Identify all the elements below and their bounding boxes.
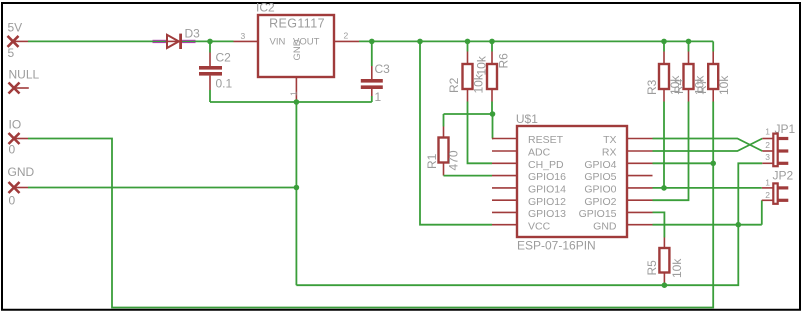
- pin 2 of JP1: [762, 140, 773, 151]
- svg-text:1: 1: [289, 91, 299, 96]
- svg-text:1: 1: [765, 178, 770, 188]
- svg-text:GND: GND: [292, 39, 303, 60]
- svg-text:CH_PD: CH_PD: [528, 159, 564, 171]
- wire IO net: [28, 102, 713, 308]
- pin GPIO0: [584, 184, 652, 196]
- junction R6 rail node: [489, 39, 495, 45]
- op-amp U$1 ESP-07-16PIN box: [516, 112, 627, 253]
- svg-text:10k: 10k: [670, 258, 684, 278]
- wire GND bus under regulator: [210, 101, 372, 103]
- wire 5V rail left: [28, 40, 234, 42]
- svg-text:RESET: RESET: [528, 134, 564, 146]
- junction C3 node: [369, 39, 375, 45]
- capacitor C2: [199, 41, 233, 102]
- svg-text:3: 3: [765, 152, 770, 162]
- resistor R3: [645, 41, 682, 101]
- svg-text:R6: R6: [497, 53, 511, 69]
- svg-text:GPIO12: GPIO12: [528, 196, 566, 208]
- svg-text:5: 5: [8, 46, 15, 60]
- svg-text:5V: 5V: [8, 21, 23, 35]
- svg-text:R5: R5: [645, 260, 659, 276]
- resistor R1: [425, 114, 461, 176]
- svg-text:C2: C2: [216, 51, 232, 65]
- wire R1 to GPIO16: [444, 175, 493, 177]
- svg-text:1: 1: [765, 127, 770, 137]
- wire R3 to GPIO0: [663, 102, 665, 188]
- svg-text:U$1: U$1: [516, 112, 538, 126]
- junction R5/GND rail node: [662, 282, 668, 288]
- wire GPIO15 to R5: [653, 212, 665, 237]
- svg-text:GPIO14: GPIO14: [528, 184, 566, 196]
- svg-text:0.1: 0.1: [216, 77, 233, 91]
- svg-text:R3: R3: [645, 79, 659, 95]
- diode D3: [153, 27, 201, 49]
- wire GND lower rail: [296, 163, 762, 285]
- pin 5V: [8, 21, 29, 61]
- resistor R5: [645, 238, 684, 286]
- svg-text:REG1117: REG1117: [269, 17, 325, 31]
- pin GPIO13: [492, 208, 566, 220]
- junction R3/GPIO0 node: [661, 185, 667, 191]
- wire GPIO4 row: [653, 162, 714, 164]
- svg-text:IO: IO: [9, 118, 22, 132]
- pin RESET: [492, 134, 564, 146]
- junction diode/C2 node: [207, 39, 213, 45]
- svg-text:GPIO2: GPIO2: [584, 196, 616, 208]
- wire VCC riser: [420, 41, 492, 224]
- pin ADC: [492, 147, 551, 159]
- svg-text:R2: R2: [447, 77, 461, 93]
- svg-text:VCC: VCC: [528, 220, 551, 232]
- pin NULL: [9, 68, 40, 94]
- junction GND pin node: [294, 185, 300, 191]
- junction R2 rail node: [465, 39, 471, 45]
- connector JP2: [773, 169, 794, 204]
- pin GPIO2: [584, 196, 652, 208]
- svg-text:2: 2: [344, 31, 349, 41]
- svg-text:VIN: VIN: [270, 37, 286, 48]
- wire R6 bottom: [491, 102, 493, 115]
- svg-text:2: 2: [765, 140, 770, 150]
- svg-text:0: 0: [9, 194, 16, 208]
- wire GPIO0 row to JP2: [653, 187, 762, 189]
- pin 1 of JP2: [762, 178, 773, 188]
- wire R2 to CH_PD: [468, 102, 493, 164]
- pin GPIO15: [579, 208, 653, 220]
- pin GPIO12: [492, 196, 566, 208]
- svg-text:470: 470: [447, 150, 461, 170]
- svg-text:R4: R4: [672, 78, 686, 94]
- pin 3 of IC2: [234, 40, 259, 42]
- svg-text:TX: TX: [603, 134, 616, 146]
- wire TX to JP1: [653, 139, 763, 152]
- svg-text:ADC: ADC: [528, 147, 551, 159]
- pin GPIO14: [492, 184, 566, 196]
- svg-text:10k: 10k: [717, 75, 731, 95]
- resistor R2: [447, 41, 486, 101]
- wire R1 top to RESET: [444, 114, 493, 139]
- junction VCC rail node: [417, 39, 423, 45]
- junction RESET node: [490, 111, 496, 117]
- wire GND vertical: [295, 102, 297, 285]
- resistor R4: [672, 41, 707, 101]
- pin GND: [8, 165, 35, 208]
- pin CH_PD: [492, 159, 564, 171]
- svg-text:GPIO4: GPIO4: [584, 159, 616, 171]
- wire RX to JP1: [653, 139, 763, 152]
- pin GPIO16: [492, 171, 566, 183]
- pin GPIO4: [584, 159, 652, 171]
- svg-text:1: 1: [375, 90, 382, 104]
- wire GND row: [653, 224, 762, 226]
- svg-text:GND: GND: [8, 165, 35, 179]
- svg-text:C3: C3: [375, 62, 391, 76]
- junction R4 rail node: [686, 39, 692, 45]
- pin 1 of JP1: [762, 127, 773, 139]
- wire JP2 pin2 riser: [761, 200, 763, 224]
- svg-text:GPIO15: GPIO15: [579, 208, 617, 220]
- svg-text:GPIO5: GPIO5: [584, 171, 616, 183]
- svg-text:RX: RX: [602, 147, 617, 159]
- svg-text:D3: D3: [185, 27, 201, 41]
- junction reg GND node: [294, 99, 300, 105]
- connector JP1: [773, 122, 795, 166]
- pin TX: [603, 134, 652, 146]
- pin VCC: [492, 220, 551, 232]
- junction R3 rail node: [661, 39, 667, 45]
- pin 1 of IC2: [295, 77, 297, 102]
- capacitor C3: [361, 41, 390, 104]
- resistor R7: [695, 41, 731, 101]
- svg-text:2: 2: [765, 190, 770, 200]
- resistor R6: [475, 41, 511, 101]
- pin 3 of JP1: [762, 152, 773, 163]
- pin 2 of IC2: [334, 40, 359, 42]
- svg-text:GPIO16: GPIO16: [528, 171, 566, 183]
- svg-text:GPIO0: GPIO0: [584, 184, 616, 196]
- svg-text:GPIO13: GPIO13: [528, 208, 566, 220]
- svg-text:IC2: IC2: [256, 1, 275, 15]
- wire 5V rail right: [359, 40, 713, 42]
- pin 2 of JP2: [762, 190, 773, 200]
- svg-text:GND: GND: [593, 220, 617, 232]
- junction GPIO4/IO node: [710, 161, 716, 167]
- pin GPIO5: [584, 171, 652, 183]
- svg-text:NULL: NULL: [9, 68, 40, 82]
- svg-text:R7: R7: [695, 78, 709, 94]
- pin GND: [593, 220, 652, 232]
- svg-text:3: 3: [241, 31, 246, 41]
- pin IO: [9, 118, 29, 157]
- svg-text:ESP-07-16PIN: ESP-07-16PIN: [517, 239, 596, 253]
- pin RX: [602, 147, 653, 159]
- op IC2 REG1117 box: [256, 1, 334, 78]
- junction GND row node: [736, 222, 742, 228]
- svg-text:0: 0: [9, 143, 16, 157]
- svg-text:10k: 10k: [475, 55, 489, 75]
- svg-text:R1: R1: [425, 153, 439, 169]
- wire R4 to GPIO2: [653, 102, 689, 201]
- svg-text:JP2: JP2: [773, 169, 794, 183]
- wire GND pin to bus: [28, 187, 296, 189]
